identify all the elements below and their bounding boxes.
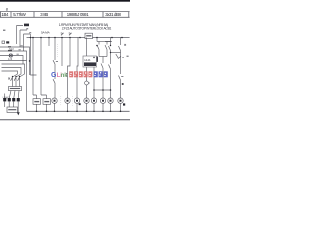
x mark right — [124, 44, 126, 46]
rung 8 vertical from FLS — [93, 67, 95, 98]
contact rung 11 lower flag — [119, 76, 124, 81]
coil drops to bus — [37, 103, 121, 111]
overload x mark — [8, 78, 10, 80]
branch link y41.5 — [97, 41, 112, 43]
circuit schematic scan — [0, 0, 130, 130]
incoming phase S wire — [20, 30, 27, 47]
rung 3 vertical (lamp) — [54, 38, 56, 99]
svg-text:5A-MA: 5A-MA — [41, 31, 51, 35]
relay box B2 — [43, 99, 51, 105]
contact rung 10 upper — [109, 46, 111, 51]
coil L2 — [65, 98, 70, 103]
MC main contact 2 — [14, 77, 16, 81]
contact mid small — [116, 54, 118, 58]
svg-text:1z3: 1z3 — [8, 57, 13, 61]
svg-text:2.FL5 AUTO 5TOP INTERLOCK ACB1: 2.FL5 AUTO 5TOP INTERLOCK ACB1 — [62, 26, 112, 30]
svg-text:5.77kW: 5.77kW — [13, 12, 27, 17]
link y90 — [94, 89, 111, 91]
switch symbol DM2 on rail — [69, 33, 72, 36]
coil L8 — [118, 98, 123, 103]
rung 5 vertical (lamp) — [68, 38, 71, 99]
contact on rung 3 upper — [53, 60, 58, 64]
svg-text::: : — [66, 73, 68, 79]
watermark korean red glyphs — [69, 71, 92, 77]
meter rect small — [2, 41, 5, 43]
rail junction dots — [32, 37, 123, 39]
coil L3 — [74, 98, 79, 103]
nest loop 1 — [2, 64, 25, 77]
pilot symbol on rung 7 — [85, 81, 89, 85]
dotted guide bottom 2 — [72, 96, 74, 106]
left feeder wire 1 — [0, 47, 30, 75]
contact rung 11 upper — [119, 46, 121, 51]
link y52.5 — [111, 52, 121, 54]
contact terminal dots — [12, 76, 20, 77]
terminal square E — [17, 98, 20, 101]
svg-text:1B4: 1B4 — [1, 12, 9, 17]
rung 9 vertical (lamp) — [102, 57, 104, 99]
switch symbol DM1 on rail — [61, 33, 64, 36]
power source label block — [24, 24, 29, 27]
rung 1 vertical — [33, 38, 37, 99]
small dash far right — [127, 55, 129, 57]
title block table bottom line — [0, 16, 130, 18]
parallel contact a — [97, 42, 99, 57]
incoming phase T wire — [24, 34, 31, 51]
THR thermal relay box — [9, 87, 22, 91]
nest loop 3 — [2, 71, 18, 77]
rung 11 vertical (lamp) — [120, 38, 122, 99]
coil L4 — [84, 98, 89, 103]
contact on rung 3 lower — [53, 79, 55, 83]
top frame border — [0, 0, 130, 2]
feeder label mark 1 — [8, 46, 11, 48]
dotted guide bottom 1 — [60, 96, 62, 106]
mark near L8 — [123, 103, 125, 105]
svg-text:3x31 dB8: 3x31 dB8 — [105, 12, 121, 17]
parallel contact b — [105, 42, 107, 57]
rung 6 vertical (lamp) — [77, 38, 78, 99]
link y41.5 — [105, 41, 111, 43]
CT symbol on feeder 3 — [9, 54, 12, 57]
drawing frame bottom line — [0, 119, 130, 121]
terminal square V — [8, 98, 11, 101]
rung 2 vertical — [41, 38, 47, 99]
branch from rail x97 — [96, 38, 98, 42]
coil L6 — [100, 98, 105, 103]
junction dots mid — [29, 37, 112, 91]
nest loop 2 — [2, 68, 22, 78]
title block table top line — [0, 11, 130, 13]
left feeder wire 2 — [0, 51, 27, 111]
feeder label mark 2 — [8, 50, 12, 52]
coil L5 — [91, 98, 96, 103]
ground triangle — [17, 112, 20, 115]
contact on rung 9 — [101, 64, 103, 69]
contact rung 10 mid — [109, 65, 111, 70]
G-Link watermark logo — [51, 71, 108, 79]
dotted guide — [57, 44, 59, 58]
aux rail drop x30.5 — [31, 34, 37, 75]
incoming phase R wire — [17, 26, 24, 45]
rung 4 vertical — [61, 38, 63, 67]
rung 10 vertical (lamp) — [110, 38, 112, 99]
relay box B1 — [33, 99, 41, 105]
svg-text:19885J 0591: 19885J 0591 — [67, 12, 89, 17]
svg-text:HL21: HL21 — [84, 58, 91, 62]
small dash upper left — [3, 29, 5, 31]
MC main contact 3 — [18, 77, 20, 81]
diag contact small right top — [118, 56, 124, 58]
link y56.5 — [99, 56, 107, 58]
motor box — [7, 107, 18, 112]
wires contacts to THR — [13, 81, 20, 87]
svg-text:N22: N22 — [9, 47, 14, 51]
wires terminals to motor — [5, 101, 19, 112]
wires THR to terminals — [5, 91, 19, 98]
terminal square U — [3, 98, 6, 101]
mark near L3 — [79, 103, 81, 105]
FLS relay box — [83, 56, 97, 67]
fuse box on rail — [85, 33, 93, 38]
coil L1 — [52, 98, 57, 103]
rail drop x49 stub — [48, 38, 50, 47]
MC main contact 1 — [11, 77, 13, 81]
meter blob — [6, 41, 9, 43]
wire stub tick S — [26, 28, 28, 30]
svg-text:3 8B: 3 8B — [40, 12, 48, 17]
terminal square W — [12, 98, 15, 101]
wire number dashes — [17, 46, 23, 54]
wire stub tick T — [29, 32, 31, 34]
table cell borders — [1, 12, 129, 18]
tick near rung11 — [122, 83, 124, 85]
control rail (top horizontal bus) — [27, 37, 130, 39]
coil L7 — [108, 98, 113, 103]
left feeder wire 3 — [0, 56, 23, 65]
watermark korean blue glyphs — [94, 71, 108, 77]
bus junction dots — [36, 111, 122, 113]
rung 7 vertical (lamp) — [86, 38, 88, 99]
neutral feeder wire — [0, 60, 27, 62]
bottom bus line — [27, 110, 130, 112]
